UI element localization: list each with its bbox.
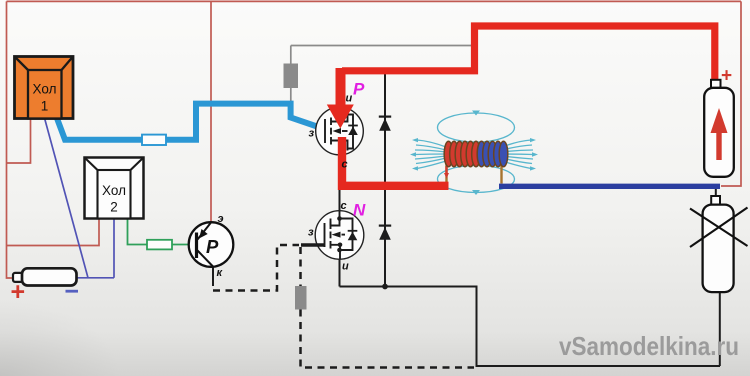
svg-text:+: + (721, 66, 732, 87)
svg-text:P: P (353, 80, 365, 99)
svg-text:э: э (218, 213, 224, 225)
svg-text:P: P (206, 236, 219, 257)
svg-text:+: + (11, 278, 26, 306)
svg-text:з: з (308, 227, 314, 239)
svg-text:2: 2 (110, 200, 118, 215)
svg-text:1: 1 (41, 99, 49, 114)
svg-text:N: N (353, 201, 366, 220)
svg-text:с: с (342, 159, 348, 171)
svg-text:и: и (346, 93, 353, 105)
svg-text:з: з (309, 128, 315, 140)
svg-text:Хол: Хол (33, 82, 57, 97)
svg-text:vSamodelkina.ru: vSamodelkina.ru (559, 331, 739, 361)
svg-text:с: с (341, 200, 347, 212)
svg-text:Хол: Хол (102, 183, 126, 198)
svg-text:и: и (342, 261, 349, 273)
